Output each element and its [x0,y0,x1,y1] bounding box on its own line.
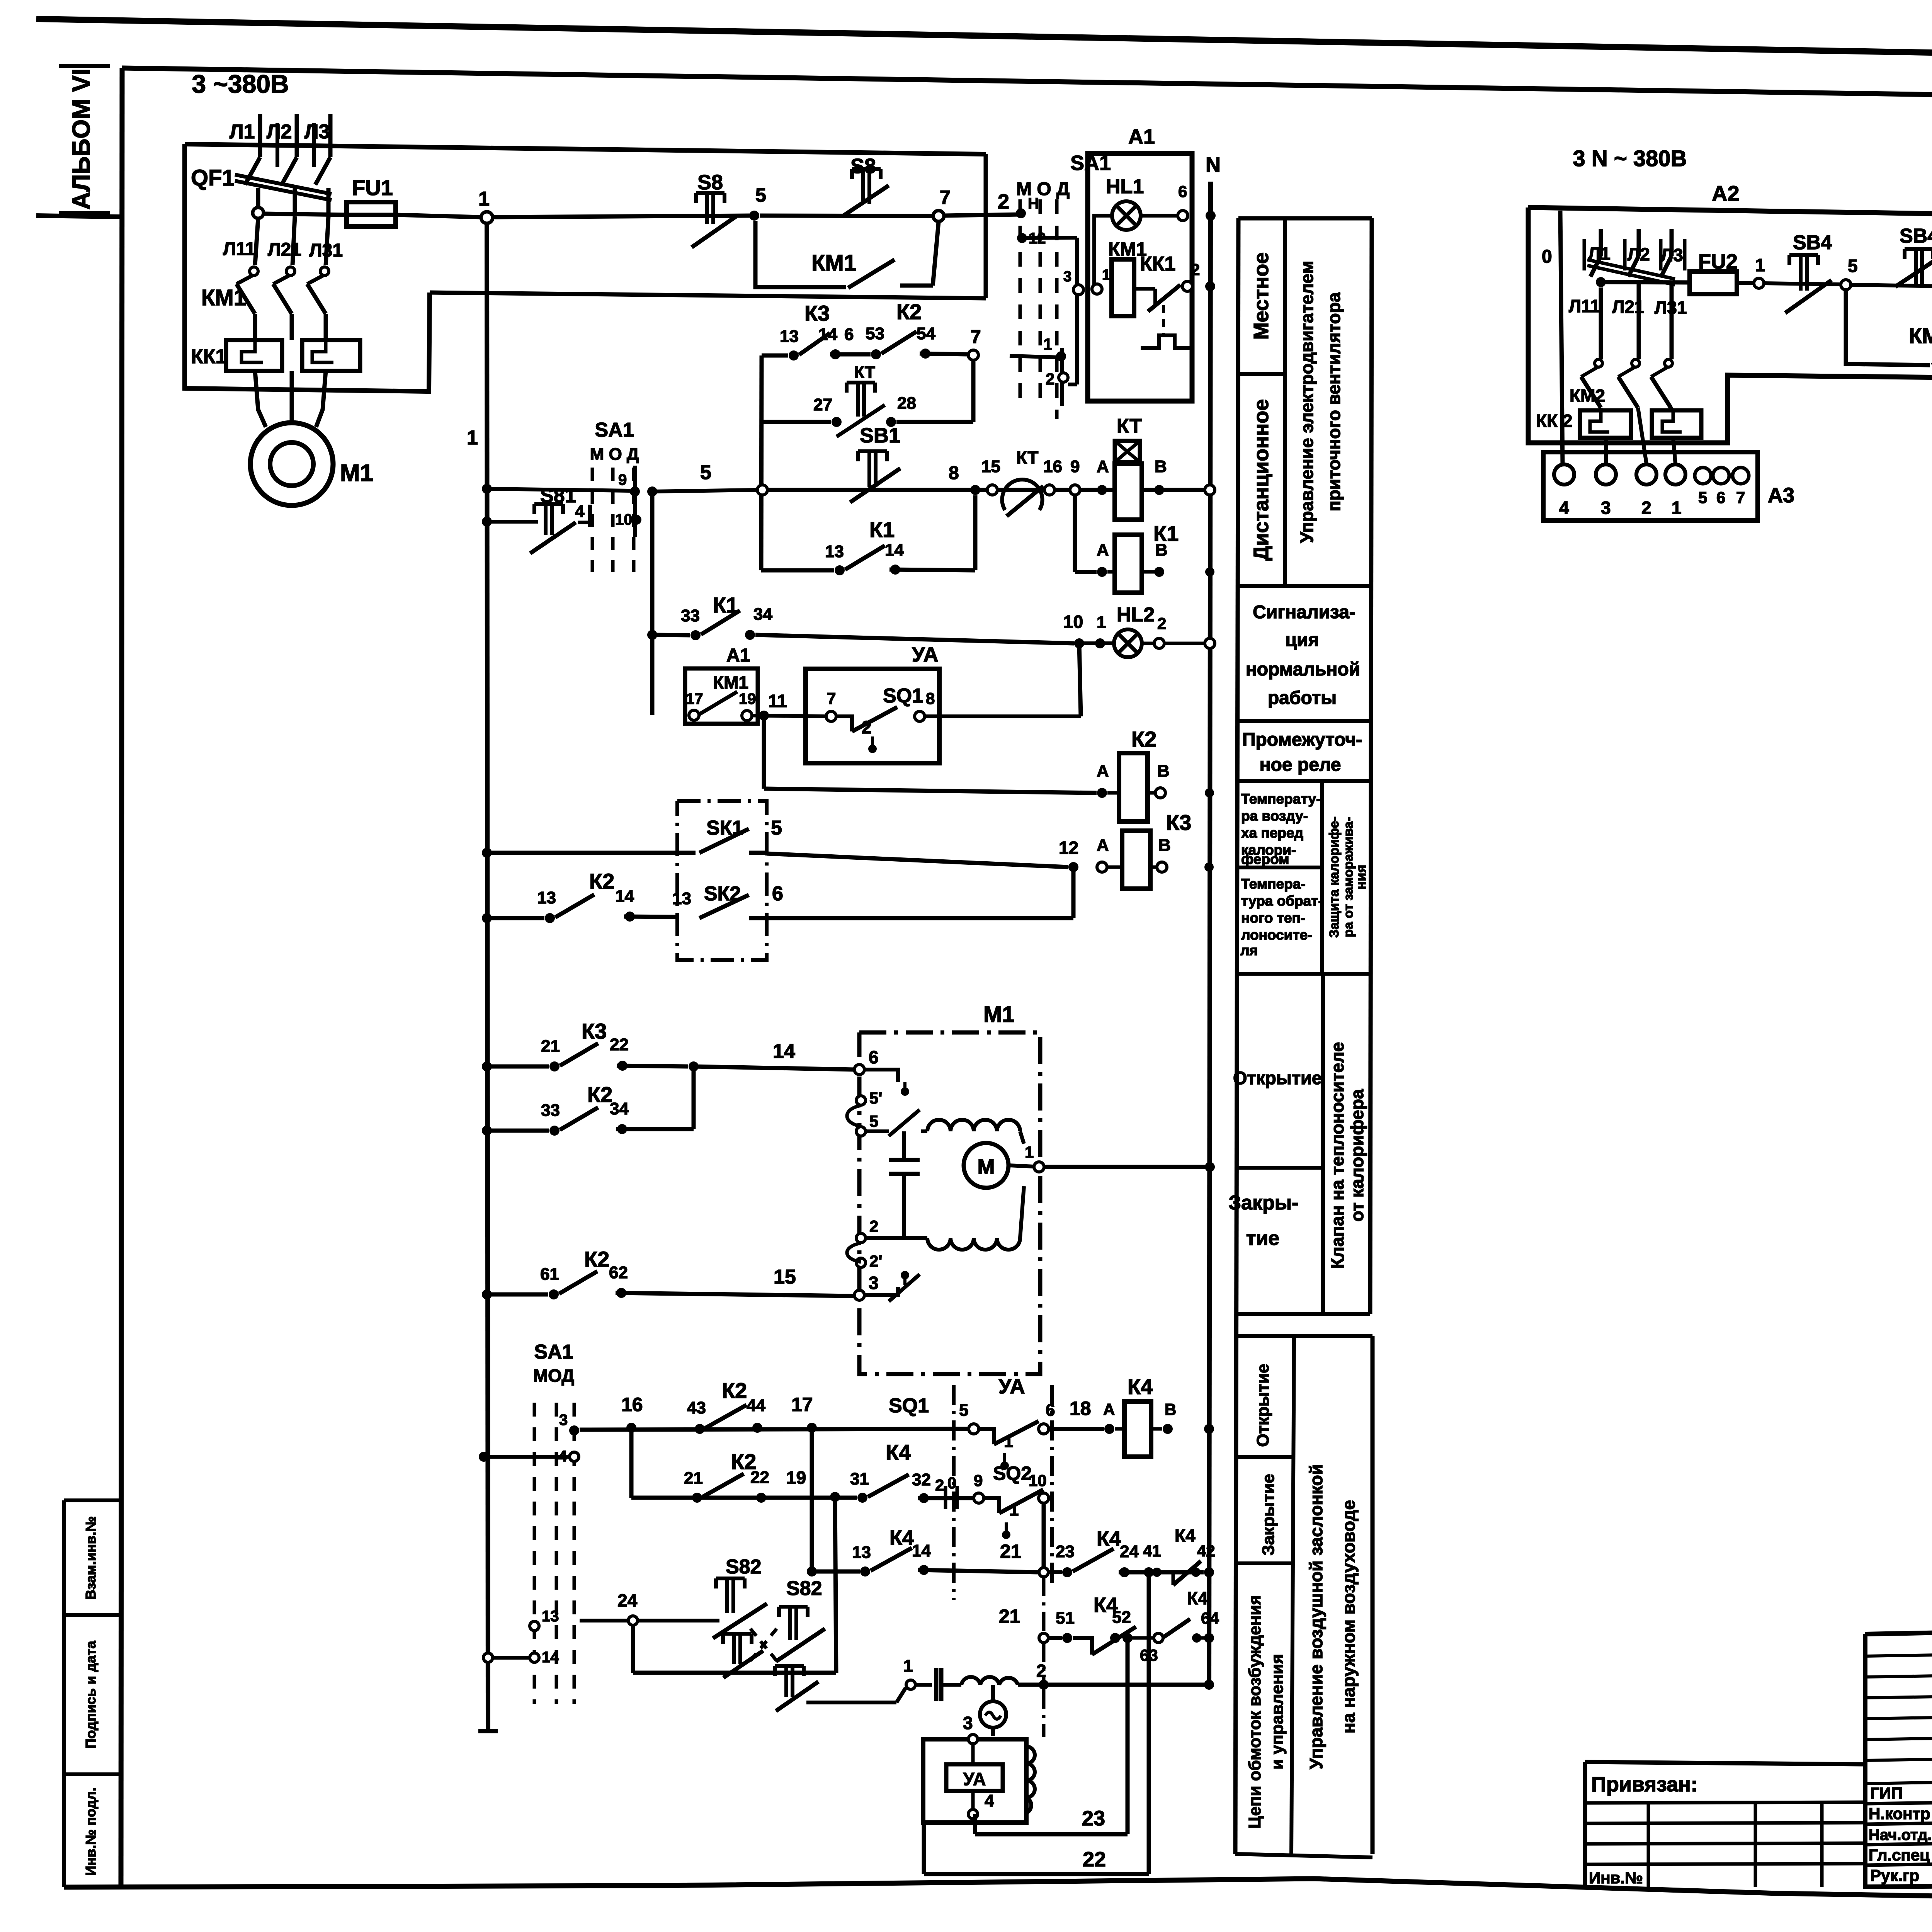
breaker QF2 [1590,256,1601,277]
svg-text:24: 24 [1120,1542,1139,1561]
A3 terminal 3 [1596,464,1616,485]
frame left vertical [121,68,122,1887]
svg-text:АЛЬБОМ VI: АЛЬБОМ VI [67,68,95,209]
wire row19 [631,1496,857,1500]
svg-text:Управление электродвигателем: Управление электродвигателем [1297,261,1317,543]
N dot HL1 row [1206,211,1216,221]
svg-text:А: А [1103,1400,1115,1418]
node circle row51 [1039,1633,1048,1643]
svg-text:14: 14 [773,1040,795,1063]
svg-text:3 N ~ 380В: 3 N ~ 380В [1573,146,1687,171]
svg-text:К1: К1 [869,517,895,542]
M1 winding upper [927,1120,1020,1131]
M1 motor circle [964,1143,1009,1188]
phase bar r3 [1659,239,1663,270]
riser 11 to K2 coil row [762,716,766,789]
svg-text:14: 14 [818,325,837,344]
signature table thin row 6 [1865,1779,1932,1784]
svg-text:5: 5 [959,1401,968,1420]
svg-text:6: 6 [869,1047,879,1067]
svg-text:27: 27 [813,395,832,414]
riser junction9 to KM1aux [650,492,655,715]
M1 terminal 5 [856,1127,866,1136]
svg-text:и управления: и управления [1268,1654,1287,1769]
svg-text:Л2: Л2 [267,121,292,143]
svg-text:Л3: Л3 [304,121,330,143]
phase stub Л2r [1637,229,1641,256]
power box outline [185,144,430,391]
SA1 low terminal 4 [570,1452,579,1461]
S81 terminal bar 4 [588,505,592,527]
terminal 5 mid [757,485,767,495]
svg-text:52: 52 [1112,1608,1131,1627]
svg-text:К4: К4 [1128,1374,1153,1399]
svg-text:К4: К4 [889,1526,914,1549]
phase stub Л1r [1599,229,1603,256]
svg-text:Л2: Л2 [1628,244,1650,264]
svg-text:44: 44 [747,1396,765,1415]
M1 terminal 2p [856,1258,866,1267]
svg-text:SА1: SА1 [595,419,634,441]
chain 10-21 link [1042,1577,1046,1633]
SQ1 contact 7-8 [826,711,836,721]
svg-text:13: 13 [780,327,799,346]
svg-text:5: 5 [755,184,766,206]
svg-text:Защита калорифе-: Защита калорифе- [1327,816,1342,938]
svg-text:4: 4 [1559,498,1569,518]
class lower section top [1236,1334,1372,1338]
power box top bus line [185,144,986,154]
svg-text:УА: УА [912,643,939,666]
svg-text:3: 3 [1063,269,1071,285]
svg-text:Промежуточ-: Промежуточ- [1242,730,1362,750]
class row line Промежуточное bottom [1237,779,1371,783]
svg-text:33: 33 [681,606,700,625]
svg-text:В: В [1158,836,1171,855]
class row line Закрытие2 bottom [1236,1561,1293,1565]
svg-text:К4: К4 [886,1440,911,1464]
svg-text:К4: К4 [1175,1526,1196,1546]
A3 terminal 4 [1554,464,1574,485]
svg-text:61: 61 [540,1265,559,1284]
svg-text:11: 11 [768,691,787,711]
svg-text:Цепи обмоток возбуждения: Цепи обмоток возбуждения [1245,1595,1264,1828]
wire 23 [973,1814,977,1834]
node QF2 junction [1596,277,1606,287]
svg-text:КТ: КТ [854,363,875,382]
svg-text:Управление воздушной заслонк: Управление воздушной заслонкой [1306,1464,1326,1769]
svg-text:2: 2 [1191,260,1200,279]
signature table named row 0 [1865,1800,1932,1804]
svg-text:работы: работы [1268,688,1337,708]
svg-text:КМ2: КМ2 [1909,323,1932,348]
svg-text:28: 28 [897,394,916,413]
node B KT [1154,485,1164,495]
svg-text:SВ1: SВ1 [860,424,900,447]
wire M1 to N bus [1044,1165,1209,1169]
svg-text:51: 51 [1056,1609,1075,1628]
class row line Открытие2 bottom [1236,1455,1294,1459]
svg-text:0: 0 [947,1474,956,1492]
svg-text:13: 13 [537,888,556,907]
svg-text:ное реле: ное реле [1260,755,1341,775]
thermal relay KK1 heater 2 [302,340,360,371]
svg-text:Дистанционное: Дистанционное [1250,399,1273,561]
phase bar r1 [1583,239,1586,270]
SQ2 cam indicator [1002,1531,1010,1539]
svg-text:18: 18 [1070,1398,1091,1419]
class divider temp section [1320,781,1324,974]
svg-text:4: 4 [985,1791,994,1810]
class row line Температура mid [1237,866,1322,869]
svg-text:А: А [1097,762,1109,781]
wire QF2 to FU2 [1601,282,1690,282]
svg-text:Открытие: Открытие [1253,1364,1272,1447]
M1 bracket 5p-5 [847,1105,861,1126]
stamp column box [64,1498,121,1502]
svg-text:41: 41 [1143,1542,1161,1560]
SA1 low dashed line 3 [573,1403,576,1704]
signature table named row 3 [1865,1861,1932,1865]
wire node1 to S8 row [493,216,750,217]
svg-text:19: 19 [786,1468,806,1488]
svg-text:5: 5 [1698,488,1707,507]
control bus node 1 vertical [487,223,488,1731]
class row line Сигнализация bottom [1237,719,1371,723]
SA1 terminal 10 mid [631,515,641,525]
svg-text:Подпись и дата: Подпись и дата [83,1641,99,1749]
svg-text:А: А [1097,836,1109,855]
svg-text:тура обрат-: тура обрат- [1241,893,1323,909]
phase drop Л21r [1637,284,1641,359]
thermal relay KK2 heater 1 [1580,410,1631,438]
solenoid block УА [923,1739,1026,1823]
SA1 low terminal 3 [569,1425,579,1435]
svg-text:КК1: КК1 [191,345,226,368]
svg-text:Сигнализа-: Сигнализа- [1253,602,1355,622]
svg-text:32: 32 [912,1470,931,1489]
signature table thin row 4 [1865,1735,1932,1740]
svg-text:34: 34 [753,605,772,624]
svg-text:2': 2' [869,1252,882,1270]
wires to A3 [1604,438,1608,464]
class divider Местное section [1283,218,1287,586]
terminal 16 KT [1044,485,1054,495]
node 16 [626,1423,636,1433]
bus dot row4 [479,1452,489,1462]
svg-text:13: 13 [542,1608,559,1625]
svg-text:22: 22 [610,1035,629,1054]
M1 terminal 1 output [1034,1162,1044,1172]
svg-text:1: 1 [903,1656,913,1675]
svg-text:7: 7 [827,689,836,707]
svg-text:S82: S82 [726,1556,762,1578]
svg-text:5: 5 [700,461,711,484]
svg-text:нормальной: нормальной [1246,659,1360,680]
node 10 [1074,638,1084,648]
svg-text:ГИП: ГИП [1870,1784,1903,1802]
svg-text:12: 12 [1059,838,1078,858]
terminal 1r [1754,278,1764,288]
riser 24 junction down [1147,1572,1151,1874]
svg-text:2: 2 [1641,498,1651,518]
node 1 HL2 [1095,638,1105,648]
svg-text:М: М [978,1155,995,1179]
svg-text:Л31: Л31 [309,240,343,261]
svg-text:6: 6 [1178,182,1187,201]
svg-text:3: 3 [559,1412,568,1429]
border top outer line [36,19,1932,65]
svg-text:10: 10 [1029,1471,1047,1490]
svg-text:42: 42 [1197,1542,1215,1560]
svg-text:S8: S8 [697,171,723,194]
phase lead Л2 [295,114,299,157]
SA1 mid dashed line 2 [611,468,615,572]
svg-text:64: 64 [1201,1609,1219,1627]
riser 10 to SQ1 row [1079,643,1081,716]
button S82 third [723,1632,752,1636]
bus dot S81 row [482,517,492,527]
svg-text:15: 15 [981,457,1000,476]
svg-text:3: 3 [1601,498,1611,518]
S82 cross link dashed [750,1629,777,1661]
svg-text:НL1: НL1 [1106,175,1144,198]
svg-text:SА1: SА1 [534,1341,573,1363]
terminal 15 KM1 coil [1092,284,1102,294]
class row line Дистанционное bottom [1238,584,1371,588]
svg-text:Л31: Л31 [1655,298,1687,318]
wire S82 fourth out [806,1701,896,1704]
svg-text:2: 2 [862,717,872,737]
svg-text:16: 16 [1043,457,1062,476]
wire row16 [580,1429,968,1430]
wire bus to S81 [488,520,538,524]
riser 34 to 22 row [692,1066,696,1129]
svg-text:Нач.отд.: Нач.отд. [1869,1827,1932,1844]
SA1 terminal 12 [1017,233,1027,243]
svg-text:15: 15 [774,1266,796,1288]
border bottom line [64,1879,1932,1932]
node 17 [807,1423,817,1433]
SQ1 cam indicator [868,745,877,753]
signature table thin row 0 [1865,1651,1932,1656]
svg-text:21: 21 [541,1037,560,1056]
SK1 contact blade [699,829,749,853]
svg-text:МОД: МОД [533,1366,574,1386]
svg-text:31: 31 [850,1469,869,1488]
class row line Местное bottom [1238,372,1285,376]
svg-text:14: 14 [615,887,634,906]
svg-text:КТ: КТ [1016,447,1038,468]
terminal strip A3 [1543,452,1758,520]
node 19 junction [830,1492,840,1502]
riser 17 down [810,1428,814,1571]
svg-text:3: 3 [869,1273,879,1293]
phase lead Л3 [328,114,333,157]
node QF1 output junction [253,207,264,218]
svg-text:53: 53 [866,324,884,343]
wire HL1 left leg [1094,216,1112,289]
svg-text:А1: А1 [1128,125,1155,148]
svg-text:ция: ция [1285,630,1319,650]
signature table thin row 5 [1865,1756,1932,1760]
phase lead Л1 [258,114,262,157]
riser 52 junction down [1126,1638,1130,1834]
svg-text:7: 7 [1736,488,1745,507]
svg-text:ния: ния [1353,865,1369,890]
svg-text:М1: М1 [340,460,373,486]
wire KM1 aux feed [430,293,986,298]
svg-text:КТ: КТ [1117,415,1142,437]
N terminal KT row [1205,485,1215,495]
svg-text:6: 6 [772,883,783,905]
svg-text:19: 19 [739,690,756,707]
wire bus to 9 terminal [488,489,630,491]
bus 1 end tick [478,1729,498,1733]
node row9 junction [647,486,657,497]
svg-text:9: 9 [974,1471,983,1490]
class column left edge [1235,218,1238,1854]
block outer boundary [922,1823,926,1874]
A3 terminal 6 [1713,468,1729,484]
svg-text:2: 2 [869,1217,878,1235]
svg-text:Л21: Л21 [268,240,301,260]
class row line Открытие bottom [1236,1166,1323,1170]
svg-text:7: 7 [940,187,951,208]
wire 14 to M1 terminal 6 [689,1061,699,1071]
wire row21 right [1048,1570,1062,1574]
svg-text:10: 10 [1063,612,1083,632]
wire cap row to N [1039,1680,1049,1690]
node 11 [752,714,760,718]
svg-text:34: 34 [610,1099,629,1118]
svg-text:Инв.№: Инв.№ [1589,1869,1643,1887]
wire 34 to lamp HL2 [755,635,1074,643]
svg-text:КМ1: КМ1 [811,250,856,276]
lamp HL1 right wire [1141,214,1178,218]
svg-text:33: 33 [541,1101,560,1120]
svg-text:3 ~380В: 3 ~380В [192,70,289,98]
svg-text:фером: фером [1241,851,1289,867]
phase bar r2 [1623,239,1627,270]
contact KM1 17-19 [689,710,699,720]
svg-text:К2: К2 [1131,727,1156,751]
wire bus to SK1 [488,851,696,855]
svg-text:лоносите-: лоносите- [1241,927,1312,943]
riser 10 to row21 [1042,1503,1046,1567]
svg-text:ра возду-: ра возду- [1241,808,1308,824]
svg-text:1: 1 [467,427,478,449]
svg-text:24: 24 [617,1590,638,1611]
node 12 [1068,862,1078,872]
bus dot SK1 row [482,848,492,858]
motor M1 [250,423,333,505]
SA1 wire 12 to A1 [1022,238,1077,238]
svg-text:SВ4: SВ4 [1900,225,1932,247]
svg-text:54: 54 [917,324,935,343]
svg-text:1: 1 [1009,1500,1019,1519]
svg-text:К2: К2 [587,1082,612,1107]
svg-text:Закры-: Закры- [1228,1192,1298,1214]
svg-text:Местное: Местное [1250,252,1273,340]
svg-text:2: 2 [998,190,1009,213]
svg-text:Рук.гр: Рук.гр [1870,1866,1919,1884]
M1 terminal 2 [856,1233,866,1243]
svg-text:43: 43 [687,1398,706,1417]
svg-text:N: N [1206,153,1221,177]
wire 5row to KT coil [768,488,1204,492]
svg-text:Закрытие: Закрытие [1259,1474,1278,1556]
terminal 15 KT [987,485,997,495]
SA1 terminal H [1016,208,1026,218]
SA1 dashed line 2 [1039,199,1042,410]
signature table frame [1865,1629,1932,1887]
svg-text:Л11: Л11 [1569,296,1600,316]
svg-text:62: 62 [609,1263,628,1282]
A3 terminal 7 [1733,468,1749,484]
terminal 3 KM1 coil [1073,285,1083,295]
wire 11 to SQ1 [764,716,826,716]
svg-text:4: 4 [575,502,585,521]
svg-text:23: 23 [1082,1807,1105,1830]
svg-text:SВ4: SВ4 [1793,231,1832,254]
svg-text:6: 6 [1716,488,1725,507]
contact row 27-28 [762,420,831,424]
svg-text:В: В [1165,1400,1176,1418]
svg-text:1: 1 [1755,255,1765,275]
svg-text:ля: ля [1240,942,1258,958]
node 5 junction [749,211,759,221]
M1 terminal 3 [854,1290,864,1300]
riser 8 to 13-14 row [973,495,978,570]
svg-text:Темпера-: Темпера- [1241,876,1306,892]
node 8 [970,485,980,495]
svg-text:13: 13 [825,542,844,561]
node 1 terminal [481,212,493,223]
SA1 terminal 2 [1059,373,1068,382]
svg-text:КМ1: КМ1 [713,672,748,692]
damper motor block M1 [859,1032,1040,1374]
svg-text:10: 10 [615,511,633,528]
phase stub Л3r [1670,229,1674,256]
svg-text:К2: К2 [589,869,614,893]
class divider valve section [1321,974,1325,1314]
svg-text:Клапан на теплоносителе: Клапан на теплоносителе [1327,1042,1347,1269]
signature table thin row 1 [1865,1672,1932,1677]
riser 19 to s82 bottom [835,1498,836,1673]
wire 24 row [580,1619,628,1622]
SA1 dashed line 3 [1055,199,1059,419]
button S82 fourth [775,1664,804,1668]
svg-text:А3: А3 [1768,484,1794,507]
svg-text:14: 14 [912,1541,931,1560]
svg-text:S82: S82 [786,1577,822,1600]
svg-text:7: 7 [971,327,981,347]
svg-text:21: 21 [999,1605,1020,1627]
svg-text:М1: М1 [983,1002,1015,1027]
wire 9 junction to 5 terminal [652,490,757,492]
KK1 heater symbol [1141,335,1192,348]
svg-text:Л3: Л3 [1661,245,1683,265]
wire QF1 to FU1 [264,214,347,215]
capacitor row damper [906,1680,915,1689]
svg-text:13: 13 [672,889,691,908]
chain 21-cap link [1042,1643,1046,1680]
wire S8 to node 7 [760,216,933,216]
class row line Защита bottom [1236,972,1371,976]
svg-text:КК1: КК1 [1140,253,1175,275]
svg-text:22: 22 [750,1468,769,1487]
